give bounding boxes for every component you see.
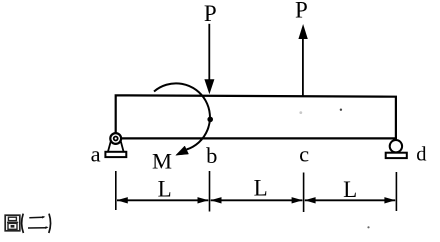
- svg-text:P: P: [204, 1, 217, 26]
- dimension tick at c: [303, 173, 305, 213]
- svg-text:a: a: [91, 142, 101, 167]
- label L (b-c span): [254, 176, 268, 201]
- caption: opening parenthesis: [22, 214, 24, 233]
- caption: closing parenthesis: [49, 214, 51, 233]
- svg-text:L: L: [254, 176, 268, 201]
- dimension tick at d: [395, 172, 397, 211]
- svg-text:c: c: [299, 142, 309, 167]
- label P at c: [295, 0, 308, 23]
- label d: [416, 144, 426, 166]
- svg-text:L: L: [158, 177, 172, 202]
- dimension line a-b: [117, 197, 209, 203]
- beam: [116, 95, 396, 138]
- label M: [152, 148, 172, 173]
- label a: [91, 142, 101, 167]
- node b dot: [207, 117, 213, 123]
- caption: glyph 二 top stroke: [29, 216, 45, 219]
- label b: [206, 143, 217, 168]
- caption: figure label glyph 圖: [5, 215, 20, 231]
- label L (a-b span): [158, 177, 172, 202]
- dimension line c-d: [305, 197, 396, 203]
- svg-text:d: d: [416, 144, 426, 166]
- caption: glyph 二 bottom stroke: [28, 226, 49, 229]
- force P at b (downward arrow): [204, 24, 214, 94]
- svg-text:M: M: [152, 148, 172, 173]
- dimension tick at a: [115, 171, 117, 210]
- pin support a: [105, 133, 126, 157]
- scan artifact dots: [299, 109, 369, 229]
- label P at b: [204, 1, 217, 26]
- dimension tick at b: [209, 171, 211, 212]
- moment M arrowhead: [176, 146, 189, 155]
- force P at c (upward arrow): [298, 24, 307, 97]
- svg-text:P: P: [295, 0, 308, 23]
- label L (c-d span): [343, 177, 357, 202]
- svg-text:b: b: [206, 143, 217, 168]
- svg-text:L: L: [343, 177, 357, 202]
- dimension line b-c: [211, 197, 303, 203]
- label c: [299, 142, 309, 167]
- moment M arc: [154, 83, 210, 149]
- roller support d: [386, 140, 407, 158]
